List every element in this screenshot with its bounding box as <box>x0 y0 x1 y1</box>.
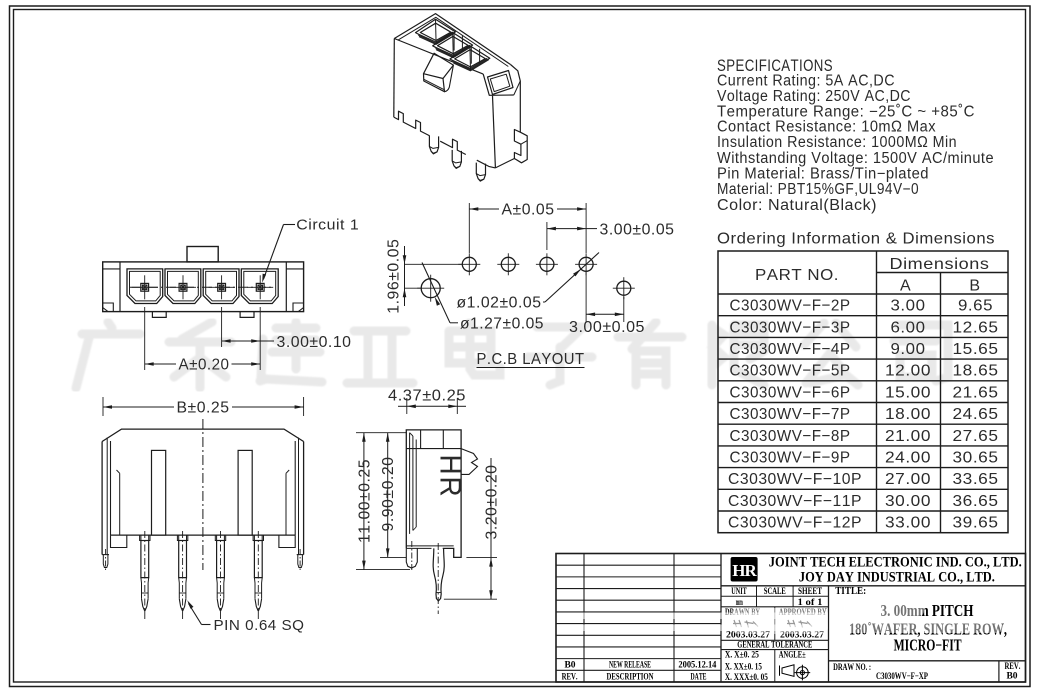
svg-text:30.00: 30.00 <box>885 493 931 510</box>
svg-text:15.00: 15.00 <box>885 384 931 401</box>
svg-text:X. XXX±0. 05: X. XXX±0. 05 <box>725 673 768 683</box>
svg-text:PART NO.: PART NO. <box>755 267 839 284</box>
svg-text:3.20±0.20: 3.20±0.20 <box>484 464 501 539</box>
svg-text:12.00: 12.00 <box>885 363 931 380</box>
svg-text:24.00: 24.00 <box>885 449 931 466</box>
svg-text:C3030WV−F−9P: C3030WV−F−9P <box>730 449 851 466</box>
svg-text:2005.12.14: 2005.12.14 <box>678 661 716 671</box>
svg-text:C3030WV−F−4P: C3030WV−F−4P <box>730 341 851 358</box>
svg-text:C3030WV−F−11P: C3030WV−F−11P <box>728 493 862 510</box>
svg-text:A±0.05: A±0.05 <box>502 202 555 219</box>
svg-text:X. XX±0. 15: X. XX±0. 15 <box>725 662 762 672</box>
svg-text:DESCRIPTION: DESCRIPTION <box>607 672 654 682</box>
svg-text:TITLE:: TITLE: <box>835 586 866 597</box>
svg-text:C3030WV−F−8P: C3030WV−F−8P <box>730 428 851 445</box>
svg-text:C3030WV−F−10P: C3030WV−F−10P <box>728 471 862 488</box>
svg-text:SHEET: SHEET <box>798 586 822 596</box>
svg-text:12.65: 12.65 <box>953 319 999 336</box>
svg-text:C3030WV−F−2P: C3030WV−F−2P <box>730 298 851 315</box>
svg-text:33.65: 33.65 <box>953 471 999 488</box>
svg-text:Ordering Information & Dime: Ordering Information & Dimensions <box>717 231 995 248</box>
svg-text:PIN 0.64 SQ: PIN 0.64 SQ <box>214 617 305 634</box>
svg-text:ø1.02±0.05: ø1.02±0.05 <box>457 295 542 312</box>
svg-text:21.00: 21.00 <box>885 428 931 445</box>
svg-text:4.37±0.25: 4.37±0.25 <box>388 388 466 405</box>
svg-text:21.65: 21.65 <box>953 384 999 401</box>
svg-text:ANGLE±: ANGLE± <box>779 651 806 661</box>
svg-text:15.65: 15.65 <box>953 341 999 358</box>
svg-text:24.65: 24.65 <box>953 406 999 423</box>
svg-text:30.65: 30.65 <box>953 449 999 466</box>
svg-text:B0: B0 <box>1006 672 1017 682</box>
svg-text:3.00±0.05: 3.00±0.05 <box>569 319 645 336</box>
svg-text:MICRO−FIT: MICRO−FIT <box>894 636 962 655</box>
svg-text:Pin Material: Brass/Tin−plat: Pin Material: Brass/Tin−plated <box>717 166 929 183</box>
svg-text:JOY DAY INDUSTRIAL CO., LTD.: JOY DAY INDUSTRIAL CO., LTD. <box>799 570 995 586</box>
svg-text:ø1.27±0.05: ø1.27±0.05 <box>460 316 544 333</box>
svg-text:DRAW NO. :: DRAW NO. : <box>833 663 871 673</box>
svg-text:C3030WV−F−12P: C3030WV−F−12P <box>728 515 862 532</box>
svg-text:A: A <box>900 278 911 295</box>
svg-text:9.00: 9.00 <box>891 341 926 358</box>
svg-text:X. X±0. 25: X. X±0. 25 <box>725 651 759 661</box>
svg-text:33.00: 33.00 <box>885 515 931 532</box>
svg-text:39.65: 39.65 <box>953 515 999 532</box>
svg-text:18.65: 18.65 <box>953 363 999 380</box>
svg-text:27.00: 27.00 <box>885 471 931 488</box>
svg-text:REV.: REV. <box>1005 662 1021 672</box>
svg-text:NEW RELEASE: NEW RELEASE <box>609 661 651 671</box>
svg-text:HR: HR <box>434 455 467 499</box>
svg-text:36.65: 36.65 <box>953 493 999 510</box>
svg-text:HR: HR <box>732 561 757 580</box>
svg-text:Material: PBT15%GF,UL94V−0: Material: PBT15%GF,UL94V−0 <box>717 181 919 198</box>
svg-text:Color: Natural(Black): Color: Natural(Black) <box>717 197 877 214</box>
svg-text:B0: B0 <box>564 661 575 671</box>
svg-text:JOINT TECH ELECTRONIC IND. CO.: JOINT TECH ELECTRONIC IND. CO., LTD. <box>769 555 1022 571</box>
svg-text:C3030WV−F−6P: C3030WV−F−6P <box>730 384 851 401</box>
svg-text:18.00: 18.00 <box>885 406 931 423</box>
svg-text:9.65: 9.65 <box>958 298 993 315</box>
svg-text:P.C.B LAYOUT: P.C.B LAYOUT <box>477 351 585 368</box>
svg-text:Dimensions: Dimensions <box>890 256 990 273</box>
svg-text:Circuit 1: Circuit 1 <box>296 217 359 234</box>
svg-text:A±0.20: A±0.20 <box>179 357 230 374</box>
svg-text:3.00±0.10: 3.00±0.10 <box>277 334 352 351</box>
svg-text:11.00±0.25: 11.00±0.25 <box>356 459 373 543</box>
svg-text:UNIT: UNIT <box>731 586 747 596</box>
svg-text:6.00: 6.00 <box>891 319 926 336</box>
svg-text:C3030WV−F−3P: C3030WV−F−3P <box>730 319 851 336</box>
svg-text:1 of 1: 1 of 1 <box>798 597 824 607</box>
svg-text:Withstanding Voltage: 1500V: Withstanding Voltage: 1500V AC/minute <box>717 150 994 167</box>
svg-text:DATE: DATE <box>691 672 707 682</box>
svg-text:GENERAL TOLERANCE: GENERAL TOLERANCE <box>737 641 812 651</box>
svg-text:27.65: 27.65 <box>953 428 999 445</box>
svg-text:REV.: REV. <box>562 672 578 682</box>
svg-text:B: B <box>969 278 980 295</box>
svg-text:C3030WV−F−5P: C3030WV−F−5P <box>730 363 851 380</box>
svg-text:C3030WV−F−7P: C3030WV−F−7P <box>730 406 851 423</box>
svg-text:Insulation Resistance: 1000M: Insulation Resistance: 1000MΩ Min <box>717 134 957 151</box>
svg-text:C3030WV−F−XP: C3030WV−F−XP <box>876 672 928 682</box>
svg-text:3.00±0.05: 3.00±0.05 <box>600 222 675 239</box>
svg-text:mm: mm <box>736 597 743 607</box>
svg-text:SCALE: SCALE <box>764 586 786 596</box>
svg-text:3.00: 3.00 <box>891 298 926 315</box>
svg-text:1.96±0.05: 1.96±0.05 <box>386 239 403 314</box>
svg-text:B±0.25: B±0.25 <box>177 400 230 417</box>
svg-text:9.90±0.20: 9.90±0.20 <box>380 457 397 532</box>
